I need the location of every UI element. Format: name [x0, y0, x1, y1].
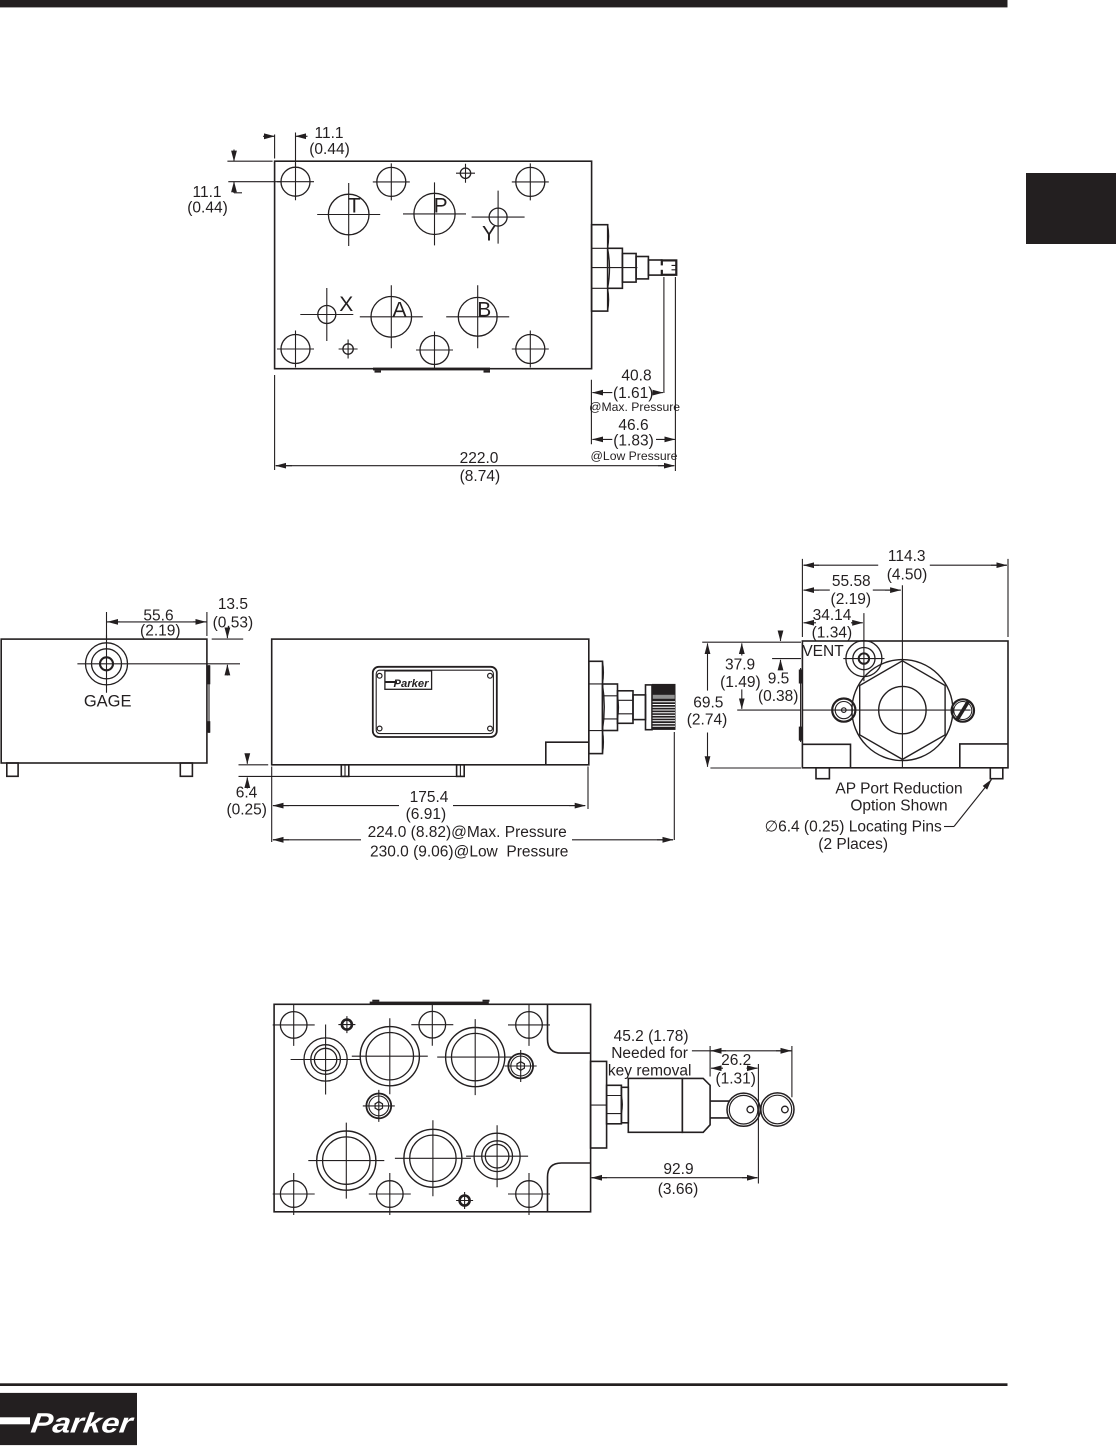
top view: bolt hole bottom-mid — [416, 332, 453, 369]
right side view: bottom-left notch — [802, 744, 850, 768]
svg-text:(2.19): (2.19) — [140, 622, 181, 639]
top view: pilot hole upper — [456, 164, 475, 183]
top view: adjuster end cap with slot — [660, 260, 677, 274]
svg-text:175.4: 175.4 — [410, 789, 449, 806]
top view: port letter X — [339, 293, 353, 316]
top view: adjuster step 1 — [592, 225, 610, 311]
svg-text:11.1: 11.1 — [192, 184, 221, 201]
front view: right extension line 175.4 — [587, 767, 589, 810]
top view: bolt hole top-mid — [373, 163, 410, 200]
left side view: nameplate edge — [207, 665, 210, 733]
dimension 34.14 (1.34) — [804, 607, 863, 642]
bottom view: pin hole upper — [338, 1016, 355, 1033]
bottom view: lock spacer — [621, 1087, 628, 1123]
bottom view: bolt hole bottom-mid — [369, 1173, 411, 1215]
svg-text:(0.44): (0.44) — [309, 141, 350, 158]
top view: adjuster shaft — [648, 260, 661, 275]
right side view: VENT port — [843, 613, 884, 681]
svg-text:(1.49): (1.49) — [720, 674, 761, 691]
top view: port letter A — [392, 299, 406, 322]
dimension 45.2 arrows — [710, 1050, 792, 1052]
dimension 6.4 (0.25) foot height — [226, 754, 462, 819]
svg-text:(2 Places): (2 Places) — [818, 836, 888, 853]
bottom view: port hole 1 — [352, 1018, 428, 1094]
svg-text:(8.74): (8.74) — [460, 468, 501, 485]
top view: adjuster step 4 — [636, 257, 648, 279]
right side view: locating pin foot right — [990, 768, 1003, 779]
svg-text:GAGE: GAGE — [84, 693, 132, 711]
bottom view: key bow 2 — [761, 1093, 794, 1126]
bottom view: bolt hole top-left — [273, 1004, 315, 1046]
bottom view: port hole 2 — [437, 1019, 513, 1095]
svg-text:34.14: 34.14 — [813, 607, 852, 624]
front view: Parker logo on nameplate — [385, 671, 432, 690]
svg-text:(1.83): (1.83) — [613, 432, 654, 449]
svg-text:AP Port Reduction: AP Port Reduction — [835, 780, 962, 797]
bottom view: port hole 3 — [308, 1123, 384, 1199]
left side view: foot right — [180, 763, 192, 776]
svg-text:(2.19): (2.19) — [831, 591, 872, 608]
top view: port P — [403, 182, 466, 245]
svg-text:∅6.4 (0.25) Locating Pins: ∅6.4 (0.25) Locating Pins — [765, 819, 942, 836]
dimension 55.6 (2.19) — [107, 607, 207, 639]
bottom view: key shaft — [710, 1101, 729, 1118]
dimension 37.9 (1.49) — [720, 643, 801, 710]
svg-text:11.1: 11.1 — [314, 125, 343, 142]
bottom view: bolt hole top-mid — [411, 1004, 453, 1046]
dimension 11.1 (0.44) horizontal, top — [263, 125, 350, 166]
bottom view: pin hole lower — [456, 1192, 473, 1209]
top view: bolt hole top-right — [512, 163, 549, 200]
svg-text:Parker: Parker — [394, 678, 430, 690]
front view: cartridge hex step 2 — [603, 684, 619, 731]
svg-text:(3.66): (3.66) — [658, 1181, 699, 1198]
left side view: body outline — [1, 639, 207, 763]
bottom view: counterbored port upper-left — [291, 1025, 361, 1095]
bottom view: bolt hole top-right — [508, 1004, 550, 1046]
top view: port letter B — [477, 298, 491, 321]
right side view: bottom-right notch — [960, 744, 1008, 768]
note: 45.2 (1.78) Needed for key removal — [608, 1028, 710, 1079]
front view: cartridge hex step 1 — [589, 661, 605, 753]
dimension 69.5 (2.74) height — [687, 642, 801, 768]
front view: knob flange — [646, 685, 653, 730]
dimension 46.6 (1.83) @Low Pressure — [591, 417, 678, 463]
svg-text:X: X — [339, 293, 353, 316]
svg-text:6.4: 6.4 — [236, 785, 258, 802]
dimension 224.0 / 230.0 overall length — [273, 824, 673, 860]
right side view: nameplate edge tabs — [799, 668, 803, 742]
top page rule — [0, 0, 1008, 7]
svg-text:46.6: 46.6 — [618, 417, 648, 434]
dimension 26.2 (1.31) — [711, 1052, 758, 1183]
dimension 92.9 (3.66) — [592, 1161, 758, 1198]
bottom view: mounting plate — [591, 1061, 607, 1148]
bottom view: counterbored port lower-right — [466, 1125, 528, 1187]
svg-text:9.5: 9.5 — [768, 670, 790, 687]
right side view: body outline — [802, 641, 1008, 768]
svg-text:69.5: 69.5 — [693, 695, 723, 712]
svg-text:VENT: VENT — [802, 643, 844, 660]
svg-text:(1.31): (1.31) — [715, 1071, 756, 1088]
svg-text:T: T — [348, 195, 361, 218]
bottom view: body outline — [274, 1004, 590, 1212]
svg-text:(0.44): (0.44) — [187, 199, 228, 216]
svg-text:13.5: 13.5 — [218, 596, 248, 613]
right side view: VENT label — [802, 643, 844, 660]
svg-text:224.0 (8.82)@Max. Pressure: 224.0 (8.82)@Max. Pressure — [368, 824, 567, 841]
svg-text:(0.25): (0.25) — [226, 801, 267, 818]
top view: pilot hole lower — [339, 340, 358, 359]
top view: port letter Y — [482, 222, 496, 245]
bottom view: top-right relief step — [548, 1004, 591, 1053]
svg-text:37.9: 37.9 — [725, 657, 755, 674]
front view: cartridge step 4 — [633, 695, 646, 720]
svg-text:(4.50): (4.50) — [887, 566, 928, 583]
svg-text:222.0: 222.0 — [460, 450, 499, 467]
top view: bolt hole bottom-left — [277, 331, 314, 368]
top view: port B — [446, 285, 509, 348]
top view: adjuster step 2 — [608, 248, 623, 288]
dimension 40.8 (1.61) @Max. Pressure — [589, 368, 680, 415]
Parker logo block — [0, 1393, 137, 1445]
note: locating pins with leader — [765, 780, 992, 854]
front view: cartridge step 3 — [618, 691, 634, 724]
dimension 55.58 (2.19) — [804, 573, 901, 608]
top view: port letter P — [434, 194, 448, 217]
svg-text:key removal: key removal — [608, 1062, 692, 1079]
svg-text:230.0 (9.06)@Low Pressure: 230.0 (9.06)@Low Pressure — [370, 844, 568, 861]
bottom view: bolt hole bottom-left — [273, 1173, 315, 1215]
svg-text:(1.34): (1.34) — [812, 624, 853, 641]
dimension 9.5 (0.38) — [758, 631, 801, 705]
dimension 13.5 (0.53) — [212, 596, 253, 676]
left side view: foot left — [7, 763, 18, 776]
left side view: GAGE port — [77, 635, 240, 693]
front view: nameplate — [373, 667, 497, 737]
top view: port Y — [472, 191, 525, 244]
bottom view: bolt hole bottom-right — [508, 1173, 550, 1215]
svg-text:@Max. Pressure: @Max. Pressure — [589, 400, 680, 414]
svg-text:(2.74): (2.74) — [687, 712, 728, 729]
front view: knob extension line — [673, 732, 675, 840]
front view: foot left — [341, 765, 349, 777]
svg-text:(0.38): (0.38) — [758, 688, 799, 705]
dimension 45.2 extension lines — [710, 1046, 792, 1097]
dimension 11.1 (0.44) vertical, left — [187, 150, 281, 217]
black side tab — [1026, 173, 1116, 244]
top view: adjuster step 3 — [622, 254, 636, 283]
svg-text:40.8: 40.8 — [621, 368, 651, 385]
svg-text:(6.91): (6.91) — [406, 806, 447, 823]
svg-text:(0.53): (0.53) — [213, 615, 254, 632]
top view: port A — [360, 285, 423, 348]
svg-text:26.2: 26.2 — [721, 1052, 751, 1069]
dimension 114.3 (4.50) — [802, 548, 1008, 637]
dimension 222.0 (8.74) — [276, 450, 675, 485]
top view: bolt hole top-left — [277, 163, 314, 200]
top view: port X — [300, 288, 353, 341]
svg-text:92.9: 92.9 — [663, 1161, 693, 1178]
svg-text:114.3: 114.3 — [888, 548, 926, 565]
bottom view: socket screw mid-left — [363, 1090, 395, 1122]
front view: foot right — [457, 765, 465, 777]
note: AP Port Reduction Option Shown — [835, 780, 962, 814]
top view: valve body outline — [275, 161, 592, 369]
bottom view: socket screw upper-right — [505, 1050, 537, 1082]
bottom view: lock hex nut — [607, 1085, 623, 1124]
svg-text:Y: Y — [482, 222, 496, 245]
right side view: slotted screw plug — [952, 699, 974, 721]
top view: bolt hole bottom-right — [512, 331, 549, 368]
front view: knurled knob — [652, 684, 676, 730]
svg-text:P: P — [434, 194, 448, 217]
left side view: GAGE label — [84, 693, 132, 711]
bottom page rule — [0, 1383, 1008, 1386]
right side view: cartridge centerlines — [803, 585, 971, 768]
right side view: left port plug — [832, 699, 855, 722]
svg-text:B: B — [477, 298, 491, 321]
bottom view: port hole 4 — [395, 1120, 471, 1196]
front view: left extension line — [271, 767, 273, 843]
bottom view: key lock cylinder — [628, 1078, 710, 1132]
svg-text:45.2 (1.78): 45.2 (1.78) — [614, 1028, 689, 1045]
top view: port T — [317, 183, 380, 246]
svg-text:A: A — [392, 299, 406, 322]
bottom view: bottom-right relief step — [548, 1163, 591, 1212]
svg-text:Parker: Parker — [29, 1408, 137, 1439]
right side view: cartridge inner circle — [879, 686, 926, 733]
bottom view: key bow 1 — [727, 1093, 760, 1126]
bottom view: gasket bar on top edge — [370, 1000, 490, 1005]
top view: port letter T — [348, 195, 361, 218]
right side view: cartridge outer circle — [852, 660, 953, 761]
svg-text:55.58: 55.58 — [832, 573, 871, 590]
front view: body outline — [272, 639, 589, 765]
right side view: foot left — [816, 768, 829, 779]
svg-text:Option Shown: Option Shown — [850, 798, 947, 815]
top view: gasket bar on bottom edge — [373, 368, 490, 373]
svg-text:@Low Pressure: @Low Pressure — [591, 449, 678, 463]
dimension 175.4 (6.91) — [273, 789, 585, 823]
top view: adjuster centerline — [592, 267, 638, 269]
svg-text:Needed for: Needed for — [611, 1045, 688, 1062]
extension lines for 40.8 / 46.6 / 222.0 — [275, 277, 676, 471]
right side view: cartridge hex nut — [860, 661, 945, 760]
front view: bottom-right pad — [546, 742, 589, 765]
